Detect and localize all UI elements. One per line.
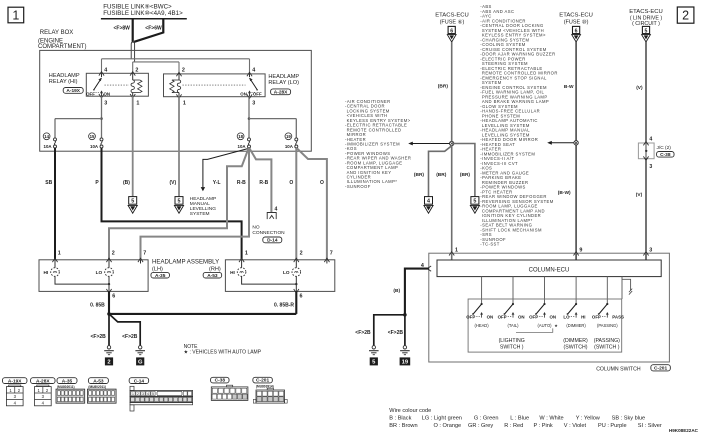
svg-text:O: O xyxy=(320,180,324,186)
wire bus to relay pins 2 xyxy=(133,61,179,63)
svg-text:(BR): (BR) xyxy=(436,172,447,178)
svg-text:COLUMN SWITCH: COLUMN SWITCH xyxy=(596,366,641,372)
svg-text:3: 3 xyxy=(142,392,144,396)
svg-text:Y-L: Y-L xyxy=(213,180,221,186)
svg-text:1: 1 xyxy=(183,101,186,107)
wire fusible link feed 8W xyxy=(132,20,134,42)
svg-text:(MU802011): (MU802011) xyxy=(57,385,75,389)
node junction on B-W wire xyxy=(574,141,578,145)
svg-text:HEADLAMP ASSEMBLY: HEADLAMP ASSEMBLY xyxy=(152,259,219,266)
svg-text:D-14: D-14 xyxy=(267,238,278,244)
svg-text:(DIMMER): (DIMMER) xyxy=(563,338,588,344)
arrow to heated seat list entry xyxy=(550,142,574,144)
svg-text:C-38: C-38 xyxy=(660,152,671,158)
svg-text:P : Pink: P : Pink xyxy=(534,423,553,429)
relay U1 headlamp relay (HI) A-19X xyxy=(86,73,148,96)
svg-text:B-W: B-W xyxy=(564,84,574,90)
svg-text:10A: 10A xyxy=(90,144,99,149)
svg-text:LO: LO xyxy=(563,314,570,319)
svg-text:PU : Purple: PU : Purple xyxy=(598,423,627,429)
svg-text:A-35: A-35 xyxy=(155,273,166,279)
bulb LO RH xyxy=(295,260,297,268)
svg-text:C-201: C-201 xyxy=(654,366,667,372)
relay HI pin 1 xyxy=(130,94,135,98)
svg-text:(BR): (BR) xyxy=(460,172,471,178)
svg-text:FUSIBLE LINK⑩<4A9, 4B1>: FUSIBLE LINK⑩<4A9, 4B1> xyxy=(103,10,183,17)
svg-text:(B): (B) xyxy=(393,288,400,294)
svg-text:6: 6 xyxy=(112,294,115,300)
svg-text:SB : Sky blue: SB : Sky blue xyxy=(612,416,646,422)
headlamp RH pin 7 xyxy=(324,258,329,262)
svg-text:RELAY (HI): RELAY (HI) xyxy=(49,79,78,85)
column-ecu pin 1 xyxy=(449,252,454,256)
lighting switch AUTO position xyxy=(543,303,545,305)
svg-text:RELAY (LO): RELAY (LO) xyxy=(268,80,299,86)
wire V from J/C to column-ecu pin3 xyxy=(645,159,647,260)
wire BR branch to arrow 4 xyxy=(429,146,452,197)
bulb HI RH xyxy=(241,260,243,268)
svg-text:15: 15 xyxy=(90,134,95,139)
ground point 19 xyxy=(404,344,406,347)
relay box border (engine compartment) xyxy=(40,50,312,151)
svg-text:(MU802011): (MU802011) xyxy=(88,385,106,389)
svg-text:0. 85B-R: 0. 85B-R xyxy=(274,303,294,309)
svg-text:R-B: R-B xyxy=(259,180,268,186)
svg-text:10A: 10A xyxy=(285,144,294,149)
svg-text:OFF: OFF xyxy=(86,91,95,96)
svg-text:A-53: A-53 xyxy=(93,378,104,384)
svg-text:18: 18 xyxy=(238,134,243,139)
svg-text:SI : Silver: SI : Silver xyxy=(638,423,662,429)
svg-text:2: 2 xyxy=(300,251,303,257)
svg-text:G: G xyxy=(138,360,143,366)
relay HI coil xyxy=(132,73,134,80)
svg-text:(V): (V) xyxy=(170,180,177,186)
svg-text:LO: LO xyxy=(96,270,103,275)
wire 0.85B-R headlamp RH ground run xyxy=(295,291,297,314)
svg-text:G : Green: G : Green xyxy=(474,416,499,422)
arrow to immobilizer system list xyxy=(411,143,450,145)
relay HI pin 2 xyxy=(130,72,135,76)
svg-text:9: 9 xyxy=(579,247,582,253)
svg-text:4: 4 xyxy=(252,67,255,73)
wire B branch to ground 5 xyxy=(374,315,405,346)
svg-text:CONNECTION: CONNECTION xyxy=(252,230,285,236)
bulb HI LH xyxy=(54,260,56,268)
junction ground wires xyxy=(107,312,111,316)
svg-text:V : Violet: V : Violet xyxy=(564,423,587,429)
svg-text:3: 3 xyxy=(649,247,652,253)
svg-text:(B-W): (B-W) xyxy=(558,190,571,196)
system list for ETACS fuse 10 xyxy=(480,4,558,247)
lighting switch TAIL position xyxy=(512,303,514,305)
relay LO switch xyxy=(249,73,251,77)
wire bus to relay pins 4 xyxy=(102,58,250,60)
svg-text:(BR): (BR) xyxy=(414,172,425,178)
svg-text:2: 2 xyxy=(112,251,115,257)
svg-text:(DIMMER): (DIMMER) xyxy=(566,323,586,328)
svg-text:(B): (B) xyxy=(123,180,130,186)
relay HI pin 3 xyxy=(99,94,104,98)
node junction on BR wire xyxy=(450,141,454,145)
svg-text:OFF: OFF xyxy=(592,314,601,319)
wire Y-L fuse18 to headlamp LH pin2 xyxy=(109,148,249,260)
passing switch xyxy=(606,303,608,305)
fusible link bus bar xyxy=(101,18,187,20)
svg-text:GR : Grey: GR : Grey xyxy=(468,423,493,429)
svg-text:A-19X: A-19X xyxy=(8,378,22,384)
svg-text:<F>2B: <F>2B xyxy=(388,330,404,336)
headlamp RH pin 6 xyxy=(294,289,299,293)
svg-text:A-35: A-35 xyxy=(62,378,73,384)
connector pinout A-28X xyxy=(31,378,56,384)
wire relay HI pin3 to fuses 14 and 15 xyxy=(101,96,103,138)
svg-text:C-201: C-201 xyxy=(256,378,269,384)
svg-text:5: 5 xyxy=(131,199,134,205)
wire R-B fuse18 to headlamp LH pin7 xyxy=(141,148,250,260)
wire BR branch to arrow 5 xyxy=(452,144,475,197)
wire SB fuse14 to headlamp LH pin1 xyxy=(54,148,56,260)
svg-text:R : Red: R : Red xyxy=(504,423,523,429)
svg-text:1: 1 xyxy=(245,251,248,257)
wire fusible link feed 6W xyxy=(134,20,163,42)
svg-text:J/C (2): J/C (2) xyxy=(657,145,672,151)
svg-text:1: 1 xyxy=(132,392,134,396)
relay LO pin 2 xyxy=(176,72,181,76)
relay HI pin 4 xyxy=(99,72,104,76)
connector arrow 5 (V) xyxy=(175,197,183,205)
svg-text:1: 1 xyxy=(136,101,139,107)
svg-text:(SWITCH): (SWITCH) xyxy=(564,344,588,350)
headlamp assembly LH box A-35 xyxy=(39,260,148,292)
connector arrow 4 xyxy=(425,197,433,205)
svg-text:(RH): (RH) xyxy=(209,266,221,272)
connector pinout A-19X xyxy=(2,378,27,384)
svg-text:5: 5 xyxy=(645,28,648,34)
svg-text:C-14: C-14 xyxy=(134,378,145,384)
svg-text:RELAY BOX: RELAY BOX xyxy=(40,30,73,36)
svg-text:10A: 10A xyxy=(238,144,247,149)
svg-text:1: 1 xyxy=(12,8,19,22)
connector pinout C-38 xyxy=(211,377,230,383)
svg-text:5: 5 xyxy=(178,199,181,205)
ground point G xyxy=(139,344,141,347)
relay LO pin 1 xyxy=(176,94,181,98)
relay U2 headlamp relay (LO) A-28X xyxy=(164,74,266,97)
svg-text:5: 5 xyxy=(473,199,476,205)
headlamp RH pin 2 xyxy=(294,258,299,262)
relay LO pin 3 xyxy=(247,94,252,98)
wire (V) relay LO coil output to arrow 5 xyxy=(178,97,180,197)
svg-text:10A: 10A xyxy=(44,144,53,149)
svg-text:COMPARTMENT): COMPARTMENT) xyxy=(38,44,86,50)
relay LO pin 4 xyxy=(247,72,252,76)
column-ecu box xyxy=(437,260,661,277)
svg-text:3: 3 xyxy=(104,101,107,107)
svg-text:(PASSING): (PASSING) xyxy=(597,323,618,328)
wire to ground point 2 xyxy=(108,314,110,345)
svg-text:LO: LO xyxy=(283,270,290,275)
connector pinout C-201 xyxy=(253,377,273,383)
svg-text:OFF: OFF xyxy=(529,314,538,319)
svg-text:OFF: OFF xyxy=(253,91,262,96)
connector pinout A-35 xyxy=(57,378,77,384)
relay LO coil xyxy=(178,73,180,80)
svg-text:SYSTEM: SYSTEM xyxy=(190,211,210,217)
fuse 19 10A xyxy=(295,138,298,141)
svg-text:(LIGHTING: (LIGHTING xyxy=(499,338,525,344)
headlamp LH pin 2 xyxy=(106,258,111,262)
svg-text:(SWITCH ): (SWITCH ) xyxy=(594,344,620,350)
headlamp LH internal ground wire xyxy=(55,276,109,284)
svg-text:★: ★ xyxy=(554,324,558,328)
column-ecu pin 9 xyxy=(574,252,579,256)
svg-text:3: 3 xyxy=(252,101,255,107)
svg-text:2: 2 xyxy=(107,360,110,366)
svg-text:6: 6 xyxy=(450,28,453,34)
fuse 15 10A xyxy=(100,138,103,141)
svg-text:<F>2B: <F>2B xyxy=(91,334,107,340)
svg-text:<F>2B: <F>2B xyxy=(122,334,138,340)
svg-text:7: 7 xyxy=(143,251,146,257)
svg-text:6: 6 xyxy=(300,294,303,300)
wire V from ETACS LIN drive to J/C xyxy=(645,42,647,143)
connector pinout C-14 xyxy=(129,378,149,384)
sheet number box 2 xyxy=(677,7,694,23)
svg-text:(V): (V) xyxy=(636,192,643,198)
svg-text:3: 3 xyxy=(649,164,652,170)
svg-text:-TC-SST: -TC-SST xyxy=(480,242,499,247)
svg-text:SB: SB xyxy=(45,180,52,186)
svg-text:PASS: PASS xyxy=(612,314,624,319)
svg-text:2: 2 xyxy=(682,9,689,23)
svg-text:W : White: W : White xyxy=(539,416,563,422)
svg-text:(PASSING): (PASSING) xyxy=(594,338,620,344)
svg-text:A-28X: A-28X xyxy=(36,378,50,384)
svg-text:14: 14 xyxy=(44,134,49,139)
wire relay LO pin3 to fuses 18 and 19 xyxy=(248,97,250,138)
svg-text:19: 19 xyxy=(402,360,409,366)
sheet number box 1 xyxy=(8,7,24,23)
relay HI switch xyxy=(101,73,103,77)
lighting switch HEAD position xyxy=(481,303,483,305)
svg-text:2: 2 xyxy=(137,392,139,396)
svg-text:ON: ON xyxy=(240,91,247,96)
svg-text:A-28X: A-28X xyxy=(274,90,288,96)
svg-text:4: 4 xyxy=(275,207,278,213)
svg-text:6: 6 xyxy=(575,28,578,34)
relay LO mechanical link (dashed) xyxy=(183,84,246,86)
svg-text:(HEAD): (HEAD) xyxy=(475,323,490,328)
headlamp assembly RH box A-53 xyxy=(225,260,334,292)
connector pinout A-53 xyxy=(88,378,108,384)
svg-text:4: 4 xyxy=(427,199,430,205)
connector arrow 5 (B) xyxy=(129,197,137,205)
svg-text:NO: NO xyxy=(252,224,259,230)
svg-text:7: 7 xyxy=(330,251,333,257)
switch internal box xyxy=(468,299,622,352)
svg-text:BR : Brown: BR : Brown xyxy=(389,423,417,429)
svg-text:HI: HI xyxy=(581,314,585,319)
system list for ETACS fuse 6 xyxy=(345,99,411,189)
svg-text:ON: ON xyxy=(104,91,111,96)
svg-text:ETACS-ECU: ETACS-ECU xyxy=(629,9,663,15)
svg-text:(FUSE ⑥): (FUSE ⑥) xyxy=(440,19,465,26)
svg-text:1: 1 xyxy=(455,247,458,253)
svg-text:★ : VEHICLES WITH AUTO LAMP: ★ : VEHICLES WITH AUTO LAMP xyxy=(184,350,262,356)
stub with break mark at column-ecu right xyxy=(621,277,623,299)
wire O fuse19 to headlamp RH pin2 xyxy=(295,148,297,260)
svg-text:A-53: A-53 xyxy=(207,273,218,279)
ground point 5 xyxy=(373,344,375,347)
svg-text:ON: ON xyxy=(518,314,525,319)
svg-text:ON: ON xyxy=(487,314,494,319)
headlamp LH pin 6 xyxy=(106,289,111,293)
ground point 2 xyxy=(108,344,110,347)
wire BR from ETACS fuse6 to column-ecu pin1 xyxy=(451,42,453,260)
svg-text:0. 85B: 0. 85B xyxy=(90,303,105,309)
svg-text:O: O xyxy=(289,180,293,186)
svg-text:(LH): (LH) xyxy=(152,266,163,272)
svg-text:<F>2B: <F>2B xyxy=(355,330,371,336)
svg-text:L : Blue: L : Blue xyxy=(510,416,529,422)
wires column-ecu to switches xyxy=(481,277,483,304)
wire to ground point G xyxy=(109,314,140,345)
headlamp LH pin 1 xyxy=(52,258,57,262)
wire B column-ecu pin4 to grounds xyxy=(405,269,429,315)
svg-text:(TAIL): (TAIL) xyxy=(507,323,519,328)
column-ecu pin 3 xyxy=(643,252,648,256)
svg-text:OFF: OFF xyxy=(466,314,475,319)
svg-text:O : Orange: O : Orange xyxy=(434,423,462,429)
wire P fuse15 to headlamp RH pin1 xyxy=(102,148,242,260)
svg-text:ETACS-ECU: ETACS-ECU xyxy=(435,13,469,19)
svg-text:<F>8W: <F>8W xyxy=(114,25,131,31)
svg-text:B : Black: B : Black xyxy=(389,416,411,422)
svg-text:<F>6W: <F>6W xyxy=(145,25,162,31)
svg-text:1: 1 xyxy=(58,251,61,257)
bulb LO LH xyxy=(108,260,110,268)
svg-text:Y : Yellow: Y : Yellow xyxy=(576,416,601,422)
svg-text:Wire colour code: Wire colour code xyxy=(389,408,431,414)
wire to headlamp manual levelling system xyxy=(203,149,248,188)
bracket auto lamp to lighting switch label xyxy=(516,328,553,332)
svg-text:4: 4 xyxy=(147,392,149,396)
svg-text:(BR): (BR) xyxy=(438,83,449,89)
wire merged feed to relays (double line) xyxy=(131,42,134,62)
wire 0.85B headlamp LH ground run xyxy=(108,291,110,314)
dimmer switch xyxy=(575,303,577,305)
svg-text:OFF: OFF xyxy=(498,314,507,319)
wire B-W from ETACS fuse10 to column-ecu pin9 xyxy=(575,42,577,260)
svg-text:A-19X: A-19X xyxy=(66,88,80,94)
wire (B) relay HI coil output to arrow 5 xyxy=(132,96,134,196)
svg-text:(FUSE ⑩): (FUSE ⑩) xyxy=(564,19,589,26)
connector arrow 5 xyxy=(471,197,479,205)
svg-text:ETACS-ECU: ETACS-ECU xyxy=(559,13,593,19)
svg-text:19: 19 xyxy=(286,134,291,139)
fuse 14 10A xyxy=(54,138,57,141)
svg-text:HI: HI xyxy=(230,270,235,275)
svg-text:(AUTO): (AUTO) xyxy=(537,323,552,328)
svg-text:2: 2 xyxy=(135,67,138,73)
svg-text:4: 4 xyxy=(104,67,107,73)
svg-text:2: 2 xyxy=(182,67,185,73)
svg-text:COLUMN-ECU: COLUMN-ECU xyxy=(529,267,570,273)
svg-text:4: 4 xyxy=(649,137,652,143)
svg-text:5: 5 xyxy=(152,392,154,396)
wire R-B fuse18 to D-14 no connection xyxy=(249,148,271,212)
svg-text:-SUNROOF: -SUNROOF xyxy=(345,184,371,189)
wire O fuse19 to headlamp RH pin7 xyxy=(297,148,327,260)
svg-text:R-B: R-B xyxy=(237,180,246,186)
headlamp RH internal ground wire xyxy=(242,276,297,284)
relay HI mechanical link (dashed) xyxy=(105,84,130,86)
headlamp RH pin 1 xyxy=(239,258,244,262)
svg-text:C-38: C-38 xyxy=(215,378,226,384)
svg-text:(V): (V) xyxy=(636,85,643,91)
svg-text:SWITCH ): SWITCH ) xyxy=(500,344,524,350)
svg-text:LG : Light green: LG : Light green xyxy=(422,416,462,422)
svg-text:H9K08E22AC: H9K08E22AC xyxy=(669,428,699,433)
headlamp LH pin 7 xyxy=(138,258,143,262)
svg-text:ON: ON xyxy=(550,314,557,319)
svg-text:HI: HI xyxy=(44,270,49,275)
column switch box C-201 xyxy=(429,253,670,362)
fuse 18 10A xyxy=(248,138,251,141)
